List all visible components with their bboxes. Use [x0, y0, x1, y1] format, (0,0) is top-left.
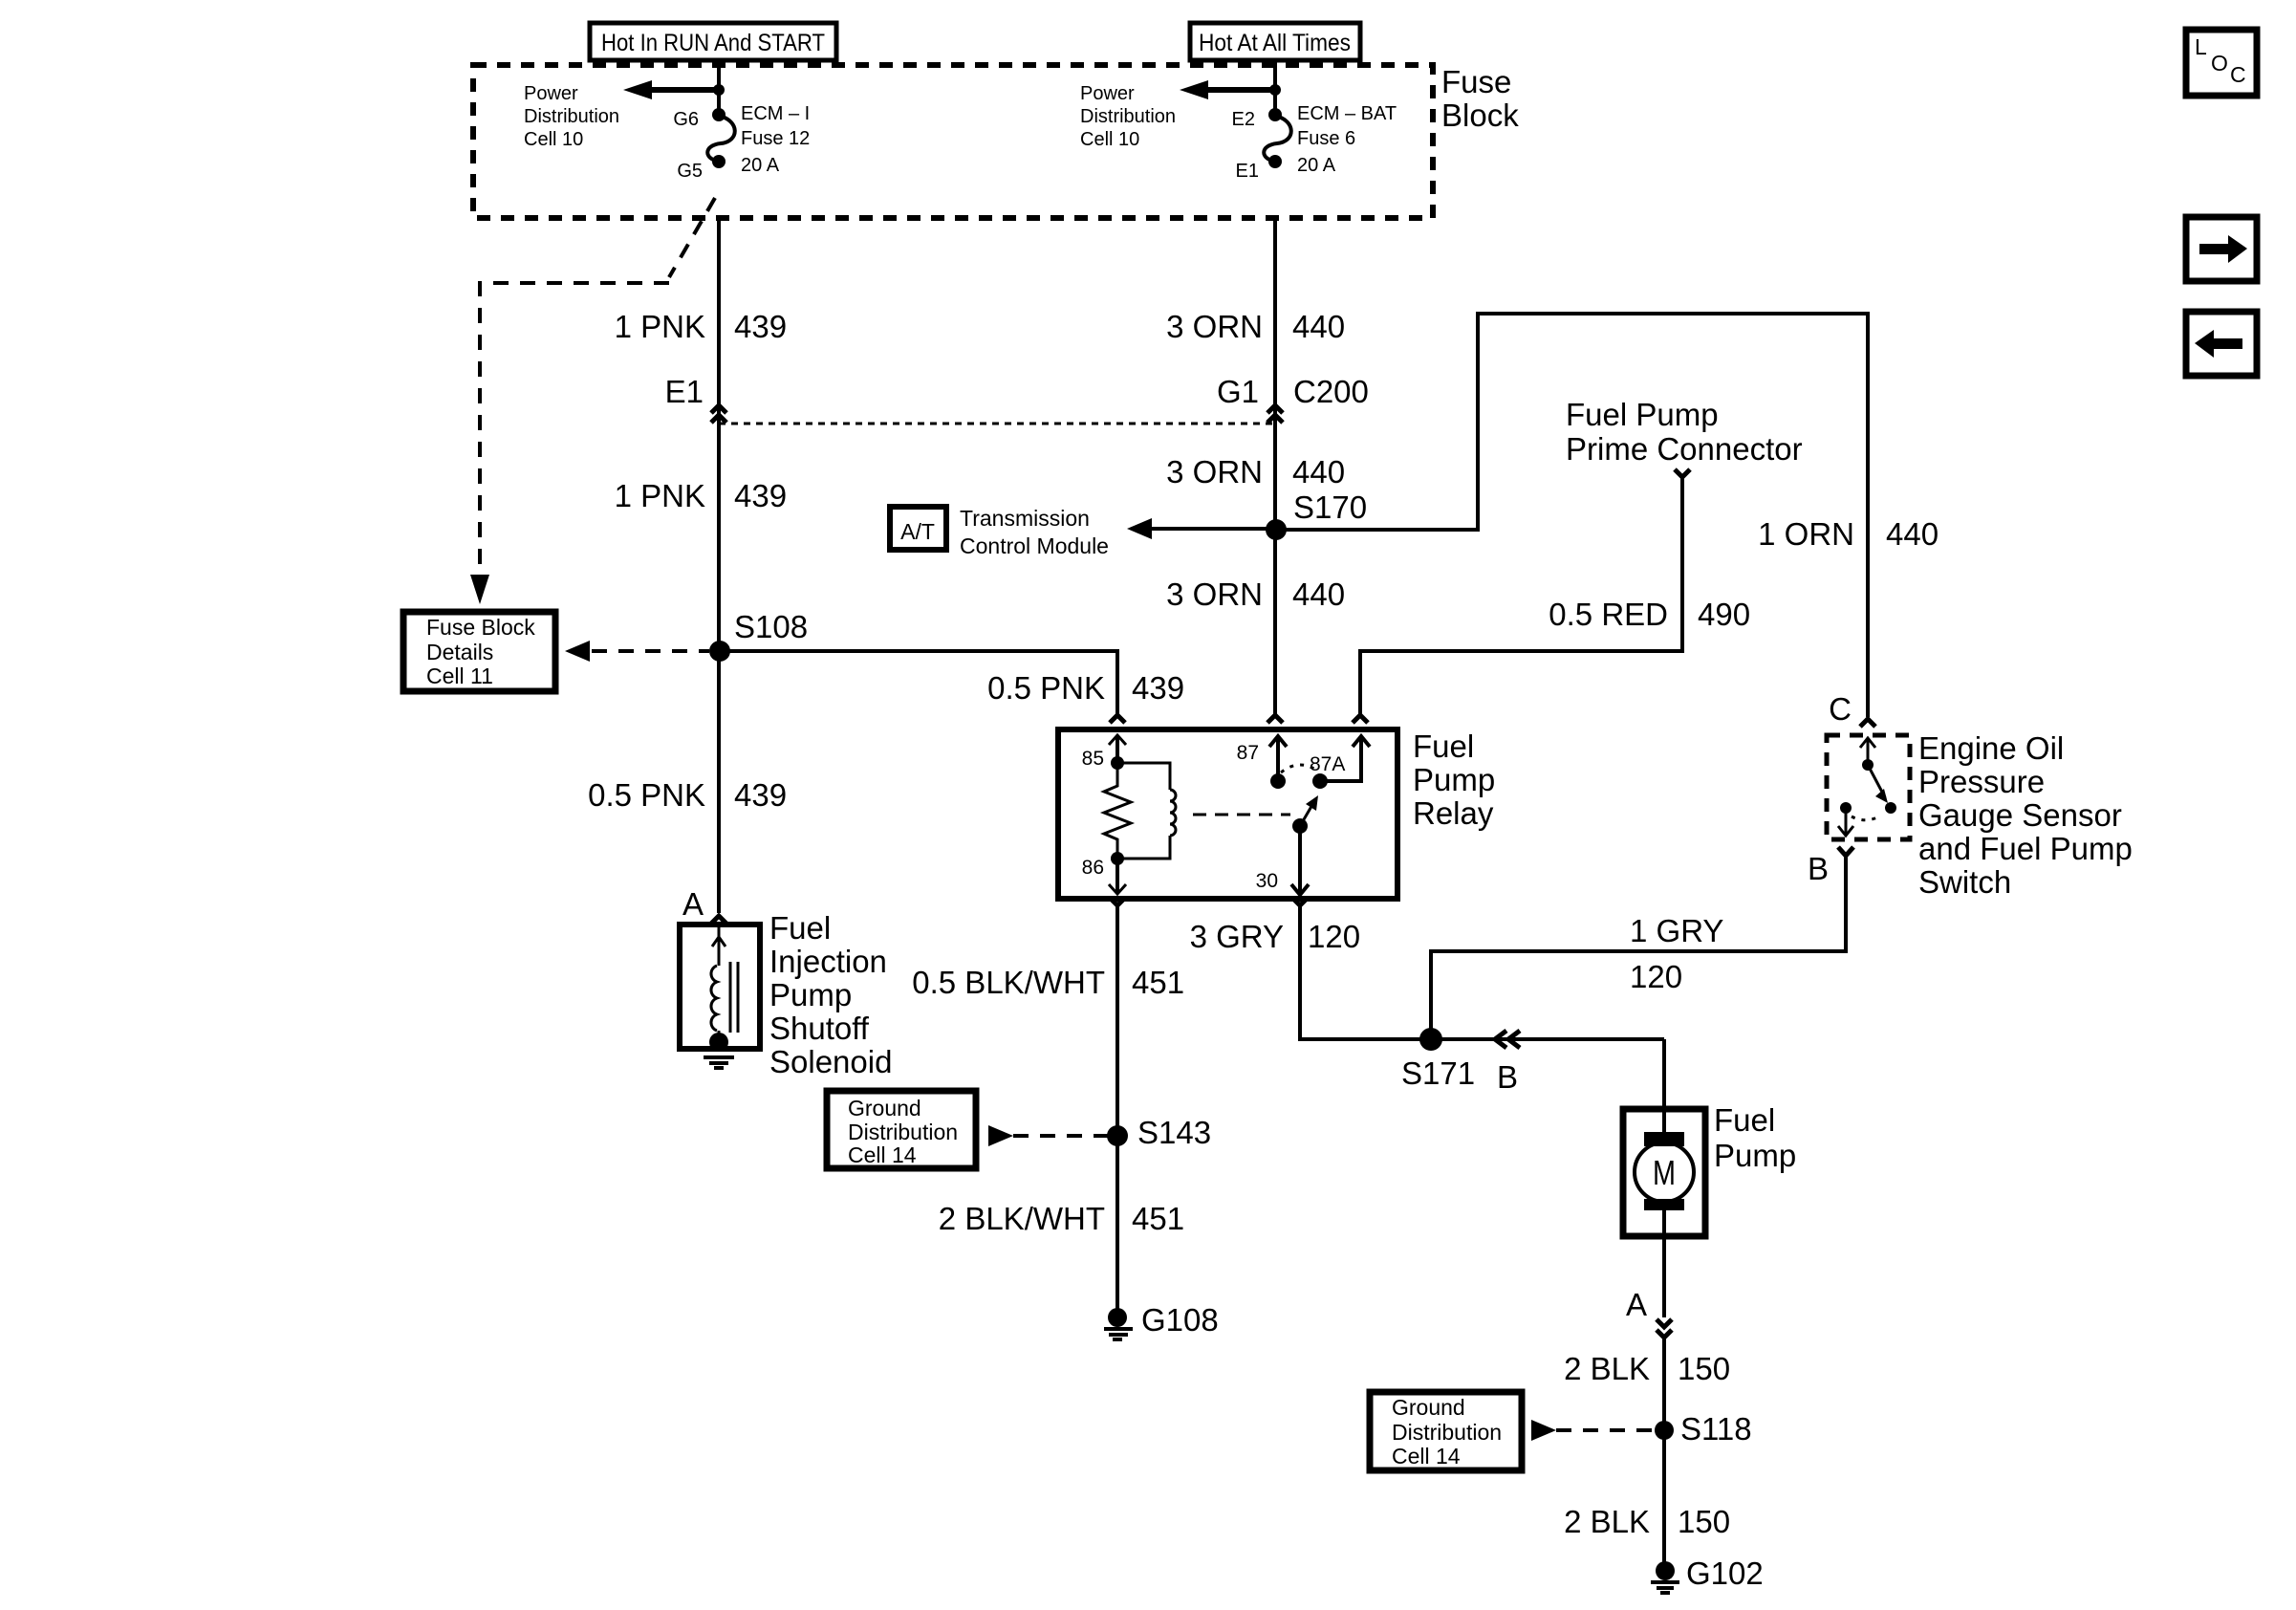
label 2 BLK 150 (upper): [1564, 1351, 1730, 1386]
svg-text:1 ORN: 1 ORN: [1758, 516, 1854, 552]
arrow to Power Distribution (left): [623, 80, 725, 99]
svg-text:451: 451: [1132, 1201, 1184, 1236]
svg-text:3 ORN: 3 ORN: [1166, 577, 1263, 612]
svg-text:490: 490: [1698, 597, 1750, 632]
svg-text:Cell 14: Cell 14: [848, 1142, 917, 1167]
svg-text:Power: Power: [1080, 83, 1135, 104]
svg-text:and Fuel Pump: and Fuel Pump: [1918, 831, 2133, 866]
svg-text:C200: C200: [1293, 374, 1369, 409]
label 1 PNK 439 (lower): [615, 478, 787, 513]
dotted connector line C200: [719, 423, 1275, 425]
oil switch arm: [1868, 765, 1896, 814]
label 3 GRY 120: [1190, 919, 1361, 954]
svg-text:Relay: Relay: [1413, 795, 1494, 831]
svg-text:Cell 11: Cell 11: [426, 664, 493, 688]
svg-text:Pressure: Pressure: [1918, 764, 2045, 799]
svg-text:S143: S143: [1137, 1115, 1211, 1150]
svg-text:Fuse 6: Fuse 6: [1297, 128, 1355, 149]
splice S170: [1266, 490, 1367, 540]
svg-text:A: A: [1626, 1287, 1647, 1322]
connector chevron at solenoid A: [711, 916, 726, 924]
svg-text:ECM – BAT: ECM – BAT: [1297, 103, 1397, 124]
label box: Fuse Block Details Cell 11: [403, 612, 555, 691]
svg-text:Control Module: Control Module: [960, 533, 1109, 558]
svg-text:150: 150: [1678, 1351, 1730, 1386]
svg-text:Ground: Ground: [848, 1096, 921, 1120]
svg-text:30: 30: [1256, 870, 1278, 892]
svg-text:Transmission: Transmission: [960, 506, 1090, 531]
relay switch arm: [1292, 795, 1318, 834]
svg-text:B: B: [1808, 851, 1829, 886]
svg-text:440: 440: [1292, 454, 1345, 490]
oil switch contact C arrow: [1860, 738, 1875, 771]
label box: Hot At All Times: [1190, 23, 1360, 60]
ground at solenoid: [709, 1033, 728, 1052]
svg-text:G5: G5: [677, 161, 703, 182]
svg-text:Block: Block: [1441, 98, 1519, 133]
svg-text:Gauge Sensor: Gauge Sensor: [1918, 797, 2122, 833]
wire: relay 30 to S171: [1300, 905, 1664, 1039]
svg-text:ECM – I: ECM – I: [741, 103, 810, 124]
svg-text:1 GRY: 1 GRY: [1630, 913, 1723, 948]
arrow to A/T Transmission Control Module: [1127, 518, 1275, 539]
oil switch dashed box: [1827, 735, 1910, 839]
wire: left feed from Hot In RUN: [717, 60, 721, 115]
A/T box: [890, 507, 946, 550]
svg-text:439: 439: [1132, 670, 1184, 706]
svg-text:Distribution: Distribution: [1392, 1420, 1502, 1445]
svg-text:S170: S170: [1293, 490, 1367, 525]
dotted arc 87 to 87A: [1281, 765, 1317, 772]
wire: fuel pump to A connector: [1662, 1236, 1666, 1317]
dashed arrow to S143: [988, 1125, 1109, 1146]
svg-text:120: 120: [1630, 959, 1682, 994]
svg-text:Pump: Pump: [1714, 1138, 1796, 1173]
svg-text:E1: E1: [665, 374, 704, 409]
wire: RED 490 from prime connector to relay 87A: [1360, 477, 1682, 715]
relay: Fuel Pump Relay box: [1058, 729, 1397, 899]
svg-text:B: B: [1497, 1059, 1518, 1095]
relay coil-switch dashed link: [1193, 814, 1290, 816]
svg-text:Switch: Switch: [1918, 864, 2011, 900]
svg-text:Ground: Ground: [1392, 1395, 1465, 1420]
svg-text:Shutoff: Shutoff: [769, 1011, 870, 1046]
splice S143: [1107, 1115, 1211, 1150]
label 0.5 PNK 439 (left branch): [588, 777, 787, 813]
svg-text:451: 451: [1132, 965, 1184, 1000]
label G1 / C200: [1217, 374, 1369, 409]
wire: right feed from Hot At All Times: [1273, 60, 1277, 115]
label 2 BLK/WHT 451: [939, 1201, 1184, 1236]
splice S118: [1655, 1411, 1752, 1447]
svg-text:O: O: [2211, 51, 2228, 76]
label 1 GRY / 120: [1630, 913, 1723, 994]
svg-text:Distribution: Distribution: [848, 1120, 958, 1144]
text Fuel Pump: [1714, 1102, 1796, 1173]
relay pin 87 arrow: [1269, 736, 1287, 789]
svg-text:439: 439: [734, 478, 787, 513]
svg-text:Cell 10: Cell 10: [1080, 129, 1139, 150]
label 1 PNK 439 (upper): [615, 309, 787, 344]
svg-text:Prime Connector: Prime Connector: [1566, 431, 1803, 467]
text ECM-I Fuse 12 20 A: [741, 103, 810, 176]
svg-text:2 BLK/WHT: 2 BLK/WHT: [939, 1201, 1105, 1236]
relay input chevrons: [1110, 715, 1368, 723]
splice S108: [709, 641, 730, 662]
svg-text:L: L: [2195, 34, 2207, 59]
relay pin 87A: [1312, 736, 1370, 789]
wire: W2 ORN 440: [1273, 218, 1277, 715]
svg-text:G108: G108: [1141, 1302, 1219, 1338]
svg-text:Engine Oil: Engine Oil: [1918, 730, 2064, 766]
dashed arrow from S108 to details box: [565, 641, 709, 662]
text Power Distribution Cell 10 (right): [1080, 83, 1176, 150]
arrow to Power Distribution (right): [1180, 80, 1281, 99]
svg-text:1 PNK: 1 PNK: [615, 309, 705, 344]
svg-text:A/T: A/T: [900, 519, 935, 544]
relay pin 86 arrow: [1109, 852, 1126, 894]
label box: Ground Distribution Cell 14 (S118): [1370, 1392, 1522, 1470]
svg-text:Fuel Pump: Fuel Pump: [1566, 397, 1719, 432]
svg-text:3 ORN: 3 ORN: [1166, 309, 1263, 344]
svg-text:Fuse 12: Fuse 12: [741, 128, 810, 149]
relay pin 30 arrow: [1291, 826, 1309, 895]
svg-text:20 A: 20 A: [1297, 155, 1336, 176]
dashed arrow to S118: [1531, 1420, 1656, 1441]
svg-text:87A: 87A: [1310, 753, 1345, 775]
svg-text:Distribution: Distribution: [1080, 106, 1176, 127]
connector chevron below oil switch: [1838, 847, 1853, 856]
connector C200 chevron at G1: [1267, 405, 1283, 423]
svg-text:M: M: [1653, 1153, 1676, 1192]
svg-text:2 BLK: 2 BLK: [1564, 1351, 1650, 1386]
relay coil: [1117, 763, 1176, 859]
Fuse Block title: [1441, 64, 1519, 133]
fuse block dashed outline: [473, 65, 1433, 218]
svg-text:1 PNK: 1 PNK: [615, 478, 705, 513]
label Fuel Pump Prime Connector: [1566, 397, 1803, 467]
svg-text:3 ORN: 3 ORN: [1166, 454, 1263, 490]
svg-text:S171: S171: [1401, 1055, 1475, 1091]
dashed leader from fuse to Fuse Block Details: [470, 198, 715, 604]
wire: S108 to relay pin 85: [720, 651, 1117, 715]
svg-text:87: 87: [1237, 742, 1259, 764]
svg-text:Injection: Injection: [769, 944, 887, 979]
label 0.5 PNK 439 (relay feed): [987, 670, 1184, 706]
dotted arc in oil switch: [1852, 816, 1881, 820]
svg-text:Pump: Pump: [1413, 762, 1495, 797]
svg-text:440: 440: [1292, 577, 1345, 612]
text Transmission Control Module: [960, 506, 1109, 558]
wire: 1 GRY 120 from oil switch B to S171: [1431, 856, 1846, 1039]
svg-text:Fuel: Fuel: [1413, 729, 1474, 764]
svg-text:S118: S118: [1680, 1411, 1752, 1447]
svg-text:Hot At All Times: Hot At All Times: [1199, 30, 1351, 56]
svg-text:A: A: [682, 886, 704, 922]
svg-text:440: 440: [1292, 309, 1345, 344]
inline connector chevrons B on S171 wire: [1495, 1031, 1520, 1095]
splice S171: [1401, 1028, 1475, 1091]
svg-text:2 BLK: 2 BLK: [1564, 1504, 1650, 1539]
solenoid: Fuel Injection Pump Shutoff Solenoid: [680, 925, 760, 1068]
svg-text:86: 86: [1082, 857, 1104, 879]
svg-text:Details: Details: [426, 640, 493, 664]
text ECM-BAT Fuse 6 20 A: [1297, 103, 1397, 176]
svg-text:439: 439: [734, 309, 787, 344]
svg-text:3 GRY: 3 GRY: [1190, 919, 1284, 954]
text Power Distribution Cell 10 (left): [524, 83, 619, 150]
wire: A to S118 to G102: [1662, 1338, 1666, 1562]
label 0.5 BLK/WHT 451: [912, 965, 1184, 1000]
svg-text:440: 440: [1886, 516, 1939, 552]
svg-text:Hot In RUN And START: Hot In RUN And START: [601, 30, 825, 56]
legend left-arrow box: [2186, 312, 2257, 376]
connector C200 chevron at E1: [711, 405, 726, 423]
label 3 ORN 440 (middle): [1166, 454, 1345, 490]
label 2 BLK 150 (lower): [1564, 1504, 1730, 1539]
svg-text:G1: G1: [1217, 374, 1259, 409]
svg-text:85: 85: [1082, 748, 1104, 770]
connector chevron at prime connector: [1675, 469, 1690, 477]
label box: Ground Distribution Cell 14 (S143): [827, 1091, 976, 1168]
ground G102: [1651, 1556, 1764, 1593]
svg-text:C: C: [2230, 62, 2246, 87]
svg-text:G102: G102: [1686, 1556, 1764, 1591]
relay pin 85 arrow: [1109, 735, 1126, 770]
svg-text:0.5 BLK/WHT: 0.5 BLK/WHT: [912, 965, 1105, 1000]
svg-text:Fuel: Fuel: [769, 910, 831, 946]
svg-text:E2: E2: [1232, 109, 1255, 130]
svg-text:S108: S108: [734, 609, 808, 644]
label box: Hot In RUN And START: [590, 23, 836, 60]
svg-text:C: C: [1829, 691, 1852, 727]
fuse ECM-BAT (E2 to E1): [1264, 108, 1291, 168]
svg-text:Fuel: Fuel: [1714, 1102, 1775, 1138]
svg-text:0.5 PNK: 0.5 PNK: [987, 670, 1105, 706]
wire: relay 86 to ground G108: [1116, 905, 1119, 1309]
svg-text:Fuse: Fuse: [1441, 64, 1511, 99]
svg-text:Power: Power: [524, 83, 578, 104]
ground G108: [1104, 1302, 1219, 1339]
label 3 ORN 440 (upper): [1166, 309, 1345, 344]
text Engine Oil Pressure Gauge Sensor and Fuel Pump Switch: [1918, 730, 2133, 900]
text Fuel Pump Relay: [1413, 729, 1495, 831]
svg-text:Pump: Pump: [769, 977, 852, 1012]
svg-text:20 A: 20 A: [741, 155, 780, 176]
svg-text:Cell 10: Cell 10: [524, 129, 583, 150]
LOC legend box: [2186, 30, 2257, 96]
label 3 ORN 440 (lower): [1166, 577, 1345, 612]
oil switch B contact arrow: [1838, 802, 1853, 836]
label 0.5 RED 490: [1549, 597, 1750, 632]
relay output chevrons: [1110, 898, 1308, 905]
svg-text:0.5 RED: 0.5 RED: [1549, 597, 1668, 632]
svg-text:120: 120: [1308, 919, 1360, 954]
relay resistor: [1104, 763, 1131, 859]
wire from S170 to top loop and prime connector: [1276, 314, 1868, 717]
connector chevron at C: [1860, 719, 1875, 727]
fuse ECM-I (G6 to G5): [707, 108, 735, 168]
svg-text:E1: E1: [1236, 161, 1259, 182]
svg-text:Fuse Block: Fuse Block: [426, 615, 535, 640]
svg-text:Solenoid: Solenoid: [769, 1044, 892, 1079]
svg-text:439: 439: [734, 777, 787, 813]
connector double chevron A: [1657, 1319, 1672, 1338]
fuel pump box: [1623, 1109, 1705, 1236]
wire: W1 PNK 439 upper: [717, 218, 721, 913]
text Fuel Injection Pump Shutoff Solenoid: [769, 910, 892, 1079]
svg-text:0.5 PNK: 0.5 PNK: [588, 777, 705, 813]
svg-text:150: 150: [1678, 1504, 1730, 1539]
legend right-arrow box: [2186, 217, 2257, 281]
svg-text:G6: G6: [673, 109, 699, 130]
wire: fuel pump feed: [1662, 1039, 1666, 1109]
label 1 ORN 440: [1758, 516, 1939, 552]
svg-text:Distribution: Distribution: [524, 106, 619, 127]
svg-text:Cell 14: Cell 14: [1392, 1444, 1461, 1469]
